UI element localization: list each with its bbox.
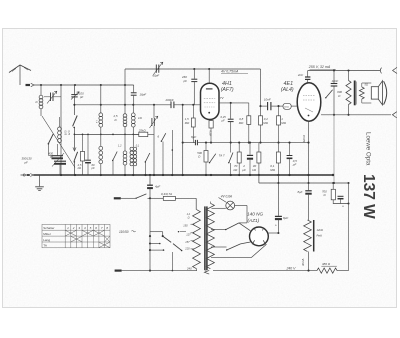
node on y=85 at x=61 [60, 84, 62, 86]
capacitor 0,25uF [230, 103, 232, 119]
svg-text:D: D [36, 100, 38, 104]
wire [74, 127, 76, 134]
svg-text:0,1M: 0,1M [208, 131, 211, 136]
wire grid cap AF7 [208, 69, 210, 83]
wire to AL4 grid [291, 105, 297, 107]
svg-text:0,25: 0,25 [221, 115, 227, 119]
svg-text:110/50: 110/50 [119, 230, 129, 234]
node y=134.4 x=133.3 [132, 134, 134, 136]
switch S5 [161, 133, 165, 141]
svg-text:25kΩ: 25kΩ [138, 129, 147, 133]
svg-text:kΩ: kΩ [78, 166, 81, 170]
wire AZ1 anode 2 [211, 246, 227, 248]
wire [124, 127, 126, 152]
node y=134.4 x=125 [124, 134, 126, 136]
bus input plug [23, 174, 25, 176]
wire [162, 142, 164, 176]
tube 4H1 AF7 envelope [201, 83, 220, 119]
plug connector antenna [26, 84, 31, 86]
switch HV 1 [226, 223, 239, 230]
wire grid line y=105 [74, 104, 170, 106]
svg-text:60: 60 [92, 163, 95, 167]
wire x=172 [171, 130, 173, 175]
wire [100, 164, 102, 175]
svg-text:D: D [115, 118, 117, 122]
svg-text:4V 0,75mA: 4V 0,75mA [221, 69, 239, 73]
resistor 1,5M [192, 105, 194, 118]
table crosses [65, 230, 109, 247]
svg-text:240: 240 [186, 266, 192, 270]
wire [148, 197, 164, 199]
svg-text:0,1: 0,1 [136, 145, 140, 148]
field coil speaker [304, 220, 312, 252]
svg-text:Ω: Ω [188, 216, 190, 219]
node y=105 x=182.7 [182, 104, 184, 106]
padder capacitor 350/130pF [54, 160, 66, 162]
wire top-left horizontal y=85 [34, 84, 134, 86]
svg-text:pF: pF [79, 95, 84, 99]
capacitor 8uF series [195, 140, 197, 145]
wire [246, 206, 248, 223]
wire lamp left [212, 207, 226, 209]
svg-text:(AZ1): (AZ1) [248, 218, 260, 223]
padder capacitor 430pF [52, 155, 64, 157]
capacitor 16pF [133, 85, 135, 92]
wire bus to B+ rail [258, 175, 260, 183]
wire [57, 144, 59, 156]
trimmer capacitor IF [152, 118, 154, 126]
svg-text:µF: µF [293, 163, 297, 167]
wire B+ y=70.5 [308, 70, 381, 72]
switch S4 [145, 153, 150, 162]
wire right vertical x=348.5 [348, 183, 350, 271]
svg-text:pF: pF [183, 79, 188, 83]
bus node x=239.2 [238, 174, 240, 176]
switch TA [210, 154, 216, 163]
svg-text:+: + [275, 223, 277, 227]
svg-text:pF: pF [91, 166, 95, 170]
selector arm diagonal [163, 236, 172, 242]
capacitor 4uF [149, 175, 151, 185]
svg-text:1,2: 1,2 [118, 145, 122, 148]
power transformer primary winding [195, 198, 197, 209]
wire y=142.6 to right [198, 142, 309, 144]
wire to antenna coil [40, 85, 42, 96]
wire [74, 97, 76, 115]
capacitor 260pF [193, 69, 195, 79]
wire [132, 105, 134, 113]
svg-text:Feld: Feld [317, 234, 323, 238]
node y=134.4 x=88 [87, 134, 89, 136]
wire tap bus y=134.4 [74, 133, 138, 135]
svg-text:4E1: 4E1 [284, 81, 294, 87]
capacitor 8uF smoothing 1 [277, 183, 279, 216]
coil L8b [133, 147, 136, 150]
node y=105 x=193.3 [192, 104, 194, 106]
node on y=85 at x=41 [40, 84, 42, 86]
svg-text:2,5: 2,5 [77, 163, 82, 167]
power transformer secondary winding [206, 203, 214, 268]
switch HV 2 [227, 244, 241, 250]
bus node x=211 [210, 174, 212, 176]
svg-text:240 V: 240 V [286, 266, 297, 270]
node y=105 x=100.8 [100, 104, 102, 106]
wire selector column [149, 198, 151, 270]
switch S1 [73, 116, 78, 127]
svg-text:157: 157 [185, 240, 190, 244]
bus node x=278.4 [277, 174, 279, 176]
svg-text:60pF: 60pF [153, 73, 160, 77]
wire AZ1 cathode out [268, 232, 278, 234]
capacitor 200pF series [171, 102, 174, 109]
node y=105 x=74.4 [73, 104, 75, 106]
wire vertical x=125 [124, 69, 126, 114]
wire [145, 163, 147, 176]
wire antenna down-lead [19, 65, 21, 85]
dial lamp [226, 201, 235, 210]
wire x=334 down [333, 115, 335, 183]
svg-text:30mA: 30mA [301, 259, 305, 266]
node y=105 x=154 [153, 104, 155, 106]
mains lead top [114, 197, 121, 199]
cathode dot inside AF7 [208, 112, 210, 114]
output transformer core [354, 81, 356, 106]
svg-text:TA 7: TA 7 [219, 154, 225, 158]
wire to AZ1 2 [241, 242, 251, 244]
svg-text:µF: µF [222, 118, 226, 122]
power transformer core [204, 206, 206, 270]
wire [132, 166, 134, 175]
svg-text:10nF: 10nF [332, 79, 339, 83]
bus node x=145.5 [144, 174, 146, 176]
wire long vertical x=182.7 [182, 105, 184, 175]
node y=134.4 x=74.4 [74, 134, 76, 136]
svg-text:16pF: 16pF [140, 93, 147, 97]
bus node x=258.9 [258, 174, 260, 176]
selector taps [180, 231, 186, 233]
resistor cathode AF7 [210, 119, 212, 120]
mains lead bottom [115, 270, 122, 272]
capacitor 0,5uF [289, 143, 291, 155]
bus node x=250 [249, 174, 251, 176]
wire [239, 222, 247, 224]
capacitor 2nF [307, 71, 309, 77]
svg-text:Mittel: Mittel [43, 232, 51, 236]
cathode dot AL4 [308, 115, 310, 117]
ground symbol [39, 175, 41, 186]
wire AF7 screen y=103 [219, 102, 249, 104]
trimmer capacitor 60pF [156, 65, 159, 73]
resistor 1M [278, 106, 280, 116]
node on y=85 at x=75 [74, 84, 76, 86]
resistor 12k grid stopper [283, 103, 291, 109]
wire speaker line y=114.8 [321, 114, 391, 116]
wire [162, 232, 164, 236]
wire [124, 165, 126, 175]
wire x=260 drop [260, 69, 262, 116]
capacitor 8uF smoothing 2 [308, 183, 310, 190]
switch S2 [49, 134, 54, 143]
wire grid line y=105 right part [174, 104, 200, 106]
capacitor 10nF coupling [268, 102, 271, 110]
node y=105 x=125 [124, 104, 126, 106]
diagonal wire band-switch [42, 116, 75, 168]
wire top line y=69 [125, 68, 261, 70]
svg-text:MΩ: MΩ [239, 121, 244, 125]
coil L6 [123, 151, 127, 155]
capacitor 2uF [249, 143, 251, 155]
svg-text:MΩ: MΩ [263, 121, 268, 125]
resistor 30k [258, 143, 260, 152]
wire [100, 85, 102, 113]
wire [272, 105, 283, 107]
wire x=278.4 bus crossing [277, 175, 279, 183]
svg-text:4µF: 4µF [155, 185, 160, 189]
svg-text:10nF: 10nF [264, 97, 271, 101]
bus node x=206 [205, 174, 207, 176]
arrow down on x=74.5 [74, 134, 76, 150]
resistor 25k [133, 133, 139, 135]
resistor 70k [238, 143, 240, 152]
switch S3 [113, 152, 118, 161]
resistor 2,5k [82, 134, 84, 151]
svg-text:5Ω: 5Ω [365, 83, 368, 87]
switch position table [42, 224, 110, 247]
capacitor 60pF [87, 134, 89, 159]
switch tone [326, 90, 333, 98]
wire [171, 252, 173, 271]
fuse 0,4/0,7A [163, 196, 175, 200]
coil L5 2,5D [123, 114, 127, 118]
RF coil L3 [99, 113, 103, 117]
bus node x=154 [153, 174, 155, 176]
svg-text:32mA: 32mA [302, 135, 306, 142]
wire vertical x=61 [60, 85, 62, 175]
switch S1b [74, 152, 78, 161]
svg-text:0,4/0,7A: 0,4/0,7A [161, 192, 172, 196]
wire below antenna coil [40, 109, 42, 117]
wire [150, 243, 160, 245]
RF coil L4 [99, 146, 103, 150]
svg-text:137 W: 137 W [360, 174, 377, 219]
trimmer capacitor antenna [51, 93, 54, 102]
capacitor 10nF tone [333, 71, 335, 84]
output transformer secondary [359, 87, 364, 99]
wire [112, 161, 114, 175]
svg-text:127: 127 [186, 232, 191, 236]
svg-text:255 V, 32 mA: 255 V, 32 mA [308, 65, 331, 69]
wire AVC line y=142.6 [183, 142, 195, 144]
svg-text:200pF: 200pF [165, 98, 174, 102]
wire [74, 162, 76, 175]
primary taps [191, 223, 195, 225]
bus node x=133.3 [132, 174, 134, 176]
ground bus [33, 174, 333, 176]
svg-text:8µF: 8µF [298, 190, 303, 194]
svg-text:2: 2 [72, 226, 75, 230]
wire AL4 cathode drop [308, 121, 310, 183]
svg-text:(AL4): (AL4) [281, 87, 294, 93]
svg-text:MΩ: MΩ [281, 121, 286, 125]
node y=134.4 x=100.8 [100, 134, 102, 136]
svg-text:MΩ: MΩ [270, 168, 275, 172]
svg-text:pF: pF [24, 160, 29, 164]
bus node x=230.7 [230, 174, 232, 176]
core ground arrow [204, 270, 209, 274]
svg-text:Schalter: Schalter [43, 226, 54, 230]
jack connector top [380, 68, 381, 74]
switch S6 [229, 153, 233, 163]
wire coupling y=106 [261, 105, 267, 107]
node [193, 68, 195, 70]
svg-text:+: + [342, 205, 344, 209]
bus node x=308.5 [307, 174, 309, 176]
tube 4E1 AL4 envelope [297, 83, 321, 121]
node [259, 105, 261, 107]
wire bottom y=270.6 [122, 270, 197, 272]
bus node x=75 [74, 174, 76, 176]
wire selector top [150, 231, 163, 233]
oscillator coil L2 [59, 117, 61, 127]
node on y=85 at x=100.8 [100, 84, 102, 86]
node [230, 102, 232, 104]
svg-text:150: 150 [183, 223, 188, 227]
bus node x=100.8 [100, 174, 102, 176]
node [333, 69, 335, 71]
wire [308, 252, 310, 271]
svg-text:Loewe Opta: Loewe Opta [365, 132, 372, 166]
svg-text:0,70: 0,70 [67, 131, 69, 136]
mains switch [136, 194, 146, 198]
svg-text:4H1: 4H1 [222, 81, 232, 87]
svg-text:2nF: 2nF [297, 73, 303, 77]
svg-text:8µF: 8µF [191, 135, 196, 139]
wire B+ rail y=183 [259, 182, 349, 184]
wire bottom y=270.6 right [213, 270, 317, 272]
svg-text:µF: µF [242, 168, 246, 172]
node y=134.4 x=113 [112, 134, 114, 136]
node y=134.4 x=82.5 [82, 134, 84, 136]
svg-text:4V 0,6A: 4V 0,6A [221, 195, 232, 199]
resistor 0,2M [259, 116, 263, 125]
jack connector bottom [392, 112, 396, 118]
svg-text:12kΩ: 12kΩ [317, 228, 323, 232]
wire to AZ1 [239, 223, 250, 231]
svg-text:380 Ω: 380 Ω [322, 262, 331, 266]
bus end node [332, 174, 334, 176]
wire AZ1 anode 1 [211, 229, 226, 231]
svg-text:8µF: 8µF [283, 216, 288, 220]
bus node x=150 [149, 174, 151, 176]
bus node x=182.7 [182, 174, 184, 176]
wire [100, 127, 102, 146]
wire [175, 197, 196, 199]
wire AZ1 heater return [211, 244, 267, 257]
coil L7 1ohm [131, 113, 135, 117]
bus node x=125 [124, 174, 126, 176]
antenna [9, 65, 31, 73]
node [347, 69, 349, 71]
bus node x=61 [60, 174, 62, 176]
speaker [371, 87, 378, 99]
svg-text:12kΩ: 12kΩ [284, 107, 289, 109]
wire [132, 127, 134, 147]
node y=105 x=133.3 [132, 104, 134, 106]
svg-text:0,08: 0,08 [64, 131, 66, 136]
wire [333, 200, 348, 204]
bus node x=163 [162, 174, 164, 176]
antenna coil L1 [39, 95, 43, 99]
wire lamp right [235, 205, 247, 207]
svg-text:Lang: Lang [43, 238, 50, 242]
node on y=85 at x=125 [124, 84, 126, 86]
capacitor 100pF variable [74, 85, 76, 94]
tube 140NG AZ1 envelope [250, 227, 269, 246]
resistor 700 ohm [332, 183, 334, 189]
resistor 0,1M [277, 143, 279, 152]
svg-text:140 NG: 140 NG [247, 211, 264, 216]
wire x=154 [153, 105, 155, 118]
bus node x=289.5 [288, 174, 290, 176]
bus node x=172.3 [171, 174, 173, 176]
node [208, 68, 210, 70]
wire [150, 249, 164, 251]
svg-text:(AF7): (AF7) [221, 87, 234, 93]
coil L8a [130, 147, 133, 150]
wire lamp top [219, 198, 227, 203]
svg-text:220: 220 [184, 246, 190, 250]
wire [59, 164, 61, 175]
